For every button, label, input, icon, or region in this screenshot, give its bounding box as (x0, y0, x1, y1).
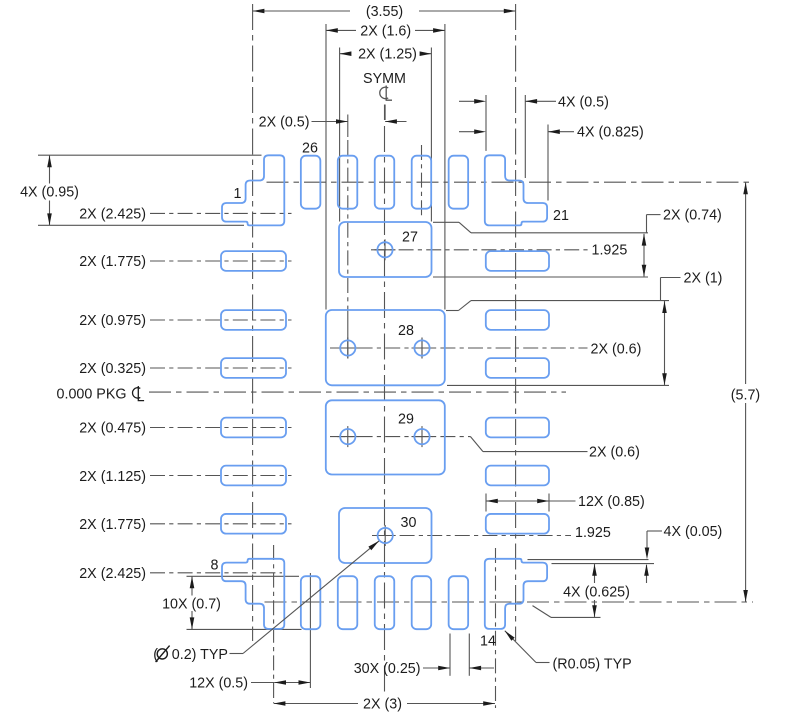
pad 29 thermal (326, 400, 445, 474)
pin 2 pad (left column) (221, 251, 286, 271)
centerline bottom pad row y=602 (265, 601, 754, 603)
pin 18 pad (right column) (486, 358, 549, 378)
pin 7 pad (left column) (221, 514, 286, 534)
svg-text:21: 21 (553, 208, 569, 224)
pin 13 pad (bottom row) (449, 576, 469, 629)
svg-text:2X (0.975): 2X (0.975) (79, 313, 146, 329)
ext line 12X(0.85) left x=486 (485, 494, 487, 512)
via row pads 29 y=436.6 with bent leader 2X(0.6) (330, 437, 588, 452)
svg-text:2X (1.25): 2X (1.25) (358, 47, 417, 63)
row centerline y=572.8 (150, 572, 282, 574)
pad 27 thermal (339, 222, 432, 277)
svg-text:4X (0.95): 4X (0.95) (20, 185, 79, 201)
label 2X (0.6) pad28 (591, 342, 642, 358)
label pin 14 (480, 633, 496, 649)
svg-text:2X (1.775): 2X (1.775) (79, 254, 146, 270)
leader (R0.05) TYP (505, 631, 632, 673)
centerline right pad column x=515.6 (515, 4, 517, 641)
ext line pad28 bottom y=385.4 (447, 384, 669, 386)
via pad 28 left (337, 338, 358, 359)
label 2X (0.975) (79, 313, 146, 329)
svg-text:27: 27 (402, 230, 418, 246)
via pad 30 (375, 525, 396, 546)
ext line 4X(0.825) x=548 (547, 125, 549, 201)
dimension 2X (0.74) with leader (642, 208, 722, 277)
pin 21 corner pad (485, 155, 547, 225)
ext line 2X(1.6) right x=444.9 (444, 24, 446, 310)
centerline corner bar x=273.6 bottom (273, 545, 275, 703)
svg-text:2X (2.425): 2X (2.425) (79, 206, 146, 222)
pin 6 pad (left column) (221, 466, 286, 486)
svg-text:14: 14 (480, 633, 496, 649)
svg-text:2X (0.325): 2X (0.325) (79, 361, 146, 377)
svg-text:SYMM: SYMM (363, 71, 406, 87)
svg-text:2X (3): 2X (3) (363, 697, 402, 713)
svg-text:1.925: 1.925 (575, 525, 611, 541)
ext line 2X(1.25) left x=339.6 (339, 48, 341, 222)
label pin 28 (398, 323, 414, 339)
label 2X (1.775) bottom (79, 517, 146, 533)
centerline column 2 x=347.8 (347, 115, 349, 359)
pin 16 pad (right column) (486, 466, 549, 486)
svg-text:4X (0.05): 4X (0.05) (664, 524, 723, 540)
svg-text:(5.7): (5.7) (731, 387, 760, 403)
dimension 2X (3) (274, 696, 495, 713)
svg-text:2X (0.74): 2X (0.74) (663, 208, 722, 224)
svg-text:10X (0.7): 10X (0.7) (162, 597, 221, 613)
ext line pad28 top jogged (446, 301, 669, 311)
row centerline y=475.5 (150, 475, 292, 477)
ext line pad27 bottom y=277 (433, 276, 648, 278)
label SYMM (363, 71, 406, 87)
dimension 2X (0.5) top (259, 105, 407, 131)
svg-text:8: 8 (211, 558, 219, 574)
ext line 10X(0.7) top y=576.3 (187, 575, 300, 577)
pin 10 pad (bottom row) (338, 576, 358, 629)
pin 12 pad (bottom row) (412, 576, 432, 629)
svg-text:2X (1.775): 2X (1.775) (79, 517, 146, 533)
label 2X (0.475) (79, 421, 146, 437)
via row pads 28 y=348 (330, 347, 588, 349)
ext line 4X(0.5)/(0.825) x=486 (485, 95, 487, 151)
pin 3 pad (left column) (221, 310, 286, 330)
label 2X (1.125) (79, 469, 146, 485)
pin 9 pad (bottom row) (301, 576, 321, 629)
pin 23 pad (top row) (412, 156, 432, 209)
ext line 4X(0.95) bottom y=225.3 (38, 224, 244, 226)
svg-text:1: 1 (234, 186, 242, 202)
pin 11 pad (bottom row) (375, 576, 395, 629)
dimension 4X (0.825) (459, 125, 644, 141)
pad30 center row 1.925 y=535.5 (372, 535, 571, 537)
ext line 4X(0.05) line B y=563.6 (552, 563, 655, 565)
svg-text:2X (1): 2X (1) (684, 271, 723, 287)
dimension 4X (0.05) with leader (644, 524, 722, 583)
label 2X (1.775) top (79, 254, 146, 270)
pin 17 pad (right column) (486, 418, 549, 438)
svg-text:2X (0.5): 2X (0.5) (259, 115, 310, 131)
svg-text:2X (1.6): 2X (1.6) (360, 23, 411, 39)
pin 19 pad (right column) (486, 310, 549, 330)
svg-text:30: 30 (401, 515, 417, 531)
centerline symbol below SYMM (380, 86, 392, 101)
pin 8 corner pad (222, 559, 284, 629)
ext line 4X(0.625) bottom jogged (533, 606, 601, 618)
svg-text:2X (0.475): 2X (0.475) (79, 421, 146, 437)
via pad 27 (375, 239, 396, 260)
svg-text:4X (0.5): 4X (0.5) (558, 94, 609, 110)
pin 5 pad (left column) (221, 418, 286, 438)
ext line 12X(0.5) right x=310.4 (309, 573, 311, 688)
label pin 27 (402, 230, 418, 246)
row centerline y=213.4 (150, 212, 292, 214)
pin 14 corner pad (485, 559, 547, 629)
pad27 center row 1.925 y=249.8 (371, 249, 589, 251)
label pin 29 (398, 412, 414, 428)
dimension 30X (0.25) (354, 661, 494, 677)
dimension 2X (1) with leader (661, 271, 723, 386)
via pad 28 right (412, 338, 433, 359)
pad 30 thermal (339, 508, 432, 563)
dimension (3.55) overall width (253, 4, 516, 20)
ext line 10X(0.7) bottom y=629.4 (187, 628, 302, 630)
svg-text:12X (0.5): 12X (0.5) (189, 676, 248, 692)
pin 22 pad (top row) (449, 156, 469, 209)
dimension 10X (0.7) (160, 577, 222, 630)
label pin 1 (234, 186, 242, 202)
pad 28 thermal (326, 310, 445, 385)
dimension 12X (0.85) (486, 494, 645, 510)
centerline pin14 bar x=495.5 bottom (495, 548, 497, 708)
pin 26 pad (top row) (301, 156, 321, 209)
row centerline y=320.0 (150, 319, 292, 321)
svg-text:4X (0.625): 4X (0.625) (563, 585, 630, 601)
svg-text:2X (0.6): 2X (0.6) (589, 445, 640, 461)
svg-text:28: 28 (398, 323, 414, 339)
label 0.000 PKG centerline (57, 386, 145, 403)
label 2X (0.325) (79, 361, 146, 377)
pin 24 pad (top row) (375, 156, 395, 209)
svg-text:(R0.05) TYP: (R0.05) TYP (553, 657, 632, 673)
label 2X (2.425) bottom (79, 566, 146, 582)
svg-text:2X (2.425): 2X (2.425) (79, 566, 146, 582)
centerline left pad column x=252.6 (252, 4, 254, 641)
dimension 2X (1.6) (326, 23, 445, 39)
row centerline y=427.5 (150, 427, 292, 429)
svg-text:26: 26 (302, 141, 318, 157)
ext line 2X(1.6) left x=326 (325, 24, 327, 310)
label 1.925 bottom (575, 525, 611, 541)
dimension 12X (0.5) (189, 676, 310, 692)
svg-text:(3.55): (3.55) (366, 4, 403, 20)
row centerline y=368.0 (150, 367, 292, 369)
via pad 29 right (412, 426, 433, 447)
svg-text:2X (0.6): 2X (0.6) (591, 342, 642, 358)
pin 4 pad (left column) (221, 358, 286, 378)
label 1.925 top (592, 243, 628, 259)
label pin 30 (401, 515, 417, 531)
centerline top pad row y=182 (267, 181, 754, 183)
pin 20 pad (right column) (486, 251, 549, 271)
label pin 8 (211, 558, 219, 574)
dimension 4X (0.95) (20, 155, 79, 225)
dimension (5.7) overall height (731, 182, 760, 601)
via pad 29 left (337, 426, 358, 447)
dimension 4X (0.625) (563, 564, 630, 617)
dimension 4X (0.5) (459, 94, 609, 110)
ext line 4X(0.5) x=525.3 (524, 95, 526, 178)
svg-text:1.925: 1.925 (592, 243, 628, 259)
svg-text:0.2) TYP: 0.2) TYP (172, 647, 228, 663)
ext line 30X(0.25) right x=469.3 (468, 634, 470, 676)
ext line 4X(0.95) top y=155.2 (38, 154, 262, 156)
svg-text:2X (1.125): 2X (1.125) (79, 469, 146, 485)
ext line 12X(0.85) right x=549 (548, 494, 550, 512)
label pin 21 (553, 208, 569, 224)
pin 15 pad (right column) (486, 514, 549, 534)
ext line 4X(0.05) line A y=559.6 (528, 559, 649, 561)
label 2X (2.425) top (79, 206, 146, 222)
row centerline y=523.8 (150, 523, 292, 525)
svg-text:30X (0.25): 30X (0.25) (354, 661, 421, 677)
centerline package center 0.000 PKG (149, 391, 566, 393)
ext line pad27 top jogged (433, 222, 648, 233)
svg-text:29: 29 (398, 412, 414, 428)
svg-text:0.000 PKG: 0.000 PKG (57, 387, 127, 403)
ext line 30X(0.25) left x=450 (449, 634, 451, 676)
pin 1 corner pad (222, 155, 284, 225)
ext line 2X(1.25) right x=431.4 (430, 48, 432, 222)
row centerline y=261.0 (150, 260, 292, 262)
centerline SYMM vertical (384, 105, 386, 695)
dimension 2X (1.25) (340, 47, 432, 63)
label 2X (0.6) pad29 (589, 445, 640, 461)
pin 25 pad (top row) (338, 156, 358, 209)
label pin 26 (302, 141, 318, 157)
centerline column 4 x=421.5 (421, 145, 424, 359)
svg-text:12X (0.85): 12X (0.85) (578, 494, 645, 510)
svg-text:4X (0.825): 4X (0.825) (577, 125, 644, 141)
leader diameter 0.2 TYP (153, 541, 379, 663)
